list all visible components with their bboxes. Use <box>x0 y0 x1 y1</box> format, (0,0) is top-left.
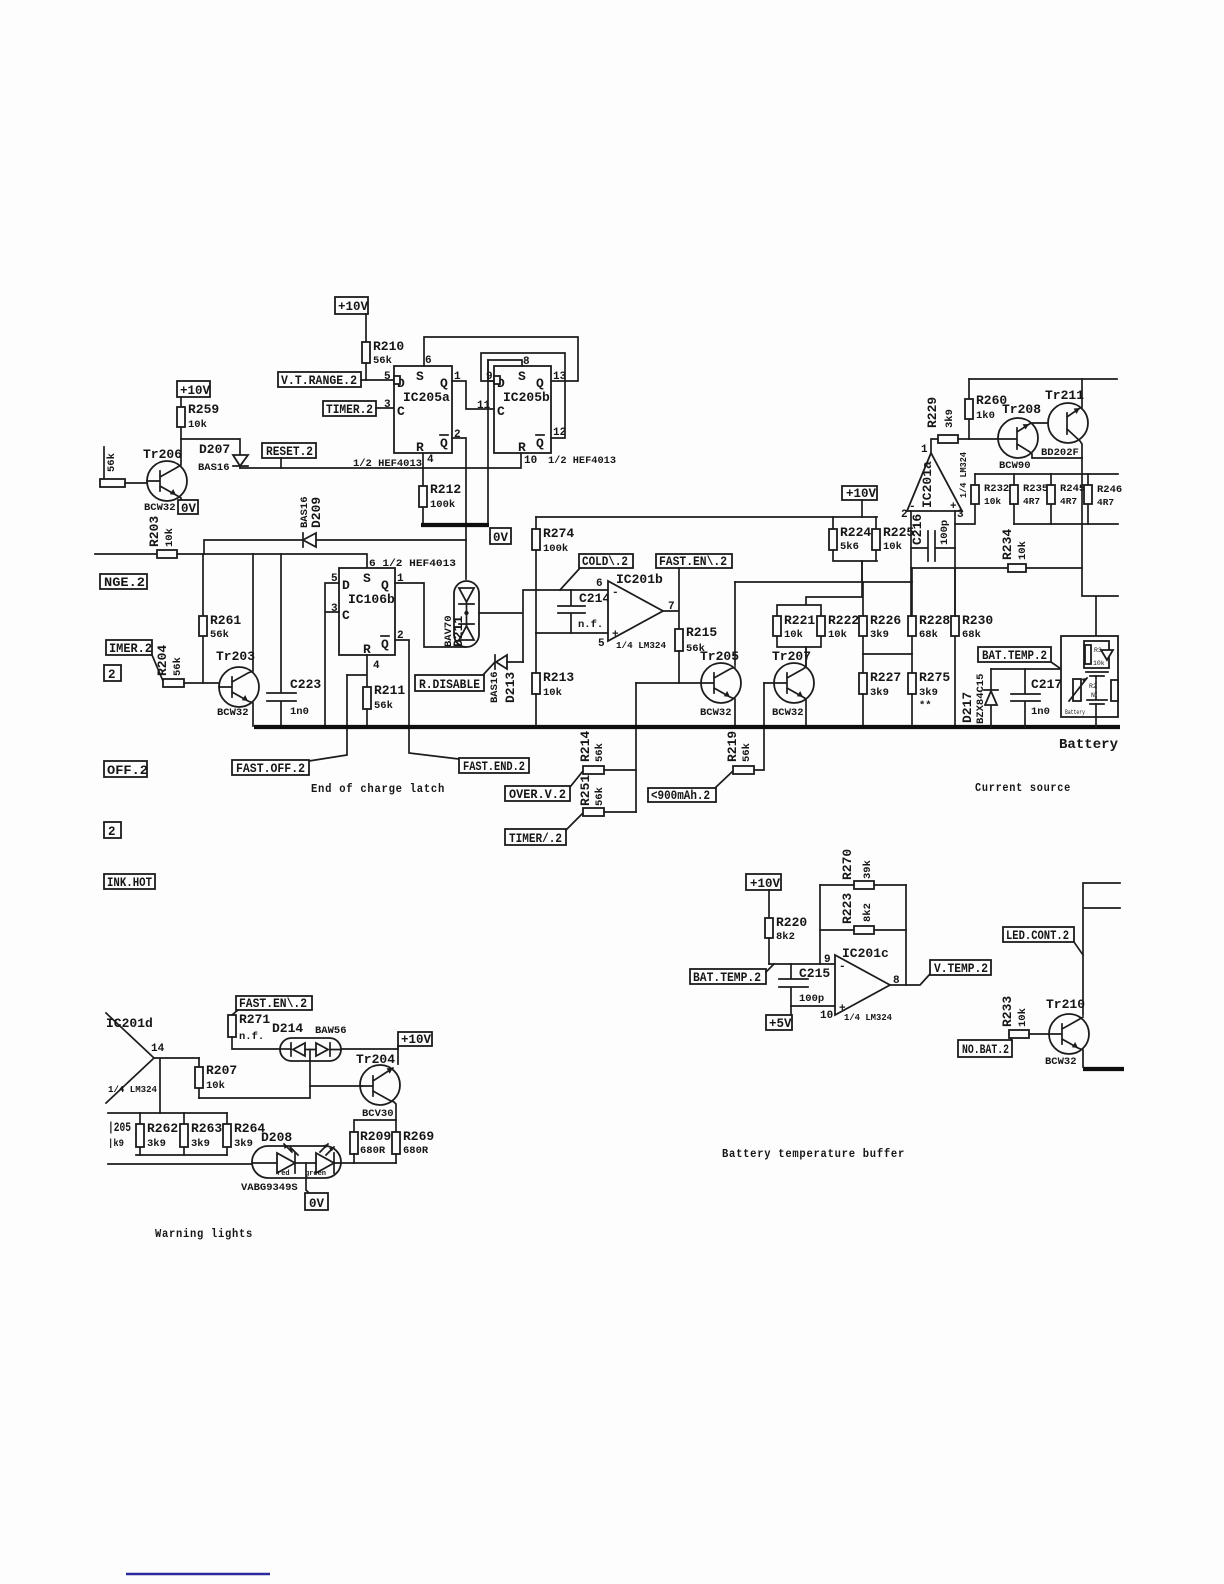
svg-text:6 1/2 HEF4013: 6 1/2 HEF4013 <box>369 558 456 570</box>
svg-text:+10V: +10V <box>180 384 211 398</box>
transistor Tr206 <box>143 439 187 514</box>
resistor R262 <box>136 1113 178 1155</box>
wire IMER.2 to R204 <box>152 655 163 681</box>
svg-text:RESET.2: RESET.2 <box>266 445 313 459</box>
diode D209 BAS16 <box>299 496 324 547</box>
svg-text:R209: R209 <box>360 1129 391 1144</box>
svg-text:BAT.TEMP.2: BAT.TEMP.2 <box>982 649 1047 663</box>
svg-text:C217: C217 <box>1031 677 1062 692</box>
resistor R214 <box>578 731 636 774</box>
svg-text:IMER.2: IMER.2 <box>109 642 152 656</box>
resistor R227 <box>859 670 901 726</box>
svg-text:R220: R220 <box>776 915 807 930</box>
svg-text:0V: 0V <box>181 502 197 516</box>
svg-text:14: 14 <box>151 1043 165 1055</box>
svg-text:+10V: +10V <box>401 1033 432 1047</box>
svg-text:FAST.END.2: FAST.END.2 <box>463 760 525 774</box>
svg-text:1k0: 1k0 <box>976 410 995 422</box>
node +10V (left) <box>177 381 211 398</box>
svg-text:R219: R219 <box>725 731 740 762</box>
svg-text:D213: D213 <box>503 672 518 703</box>
svg-text:39k: 39k <box>862 860 874 879</box>
wire LED control vertical <box>1083 883 1120 1015</box>
svg-text:4R7: 4R7 <box>1023 496 1040 507</box>
svg-text:V.T.RANGE.2: V.T.RANGE.2 <box>281 374 357 388</box>
svg-text:BCW90: BCW90 <box>999 460 1031 472</box>
node .2 (cut label lower) <box>104 822 121 839</box>
wire top rail y517 <box>536 516 877 518</box>
svg-text:FAST.EN\.2: FAST.EN\.2 <box>239 997 307 1011</box>
svg-text:Q: Q <box>440 436 448 451</box>
wire D208 to R209/R269 <box>354 1162 396 1164</box>
svg-text:680R: 680R <box>360 1145 386 1157</box>
svg-text:Current source: Current source <box>975 782 1071 795</box>
node +5V <box>766 1015 792 1031</box>
node 0V (Tr206) <box>178 500 198 516</box>
resistor R204 <box>155 645 219 687</box>
wire R207 to D214 centre <box>199 1060 310 1098</box>
svg-text:4R7: 4R7 <box>1097 497 1114 508</box>
resistor R264 <box>223 1113 265 1155</box>
op-amp IC201c <box>820 946 900 1023</box>
svg-text:10k: 10k <box>206 1080 225 1092</box>
svg-text:3k9: 3k9 <box>147 1138 166 1150</box>
wire emitter split to R209 R269 <box>354 1120 396 1132</box>
wire R234 rail y568 <box>911 567 1082 569</box>
op-amp IC201a <box>901 444 969 521</box>
wire R210 to pin5 <box>365 363 367 380</box>
svg-text:BCW32: BCW32 <box>1045 1056 1077 1068</box>
svg-text:R203: R203 <box>147 516 162 547</box>
svg-text:R222: R222 <box>828 613 859 628</box>
resistor bank rail <box>108 1113 252 1164</box>
svg-text:56k: 56k <box>373 355 392 367</box>
svg-text:C215: C215 <box>799 966 830 981</box>
resistor 56k stub at left edge <box>100 447 147 487</box>
resistor R271 <box>228 1012 280 1049</box>
node OVER.V.2 <box>505 771 583 802</box>
SECTION-TOP <box>95 297 616 590</box>
svg-text:R213: R213 <box>543 670 574 685</box>
svg-text:10k: 10k <box>1093 660 1105 667</box>
svg-text:1: 1 <box>921 444 928 456</box>
feedback verticals <box>820 885 906 985</box>
transistor Tr211 <box>1041 379 1088 459</box>
wire minus input rail <box>769 963 835 965</box>
transistor Tr210 <box>1045 997 1089 1068</box>
svg-text:BCW32: BCW32 <box>144 502 176 514</box>
svg-text:10k: 10k <box>784 629 803 641</box>
svg-text:NO.BAT.2: NO.BAT.2 <box>962 1043 1009 1057</box>
svg-text:D209: D209 <box>309 497 324 528</box>
svg-text:Tr206: Tr206 <box>143 447 182 462</box>
zener D217 BZX84C15 <box>960 669 998 727</box>
footer blue rule <box>126 1573 270 1575</box>
svg-text:+5V: +5V <box>769 1017 792 1031</box>
wire sense top rail y474 <box>975 473 1118 475</box>
svg-text:IC205a: IC205a <box>403 390 450 405</box>
svg-text:Tr210: Tr210 <box>1046 997 1085 1012</box>
resistor R212 <box>419 468 461 524</box>
svg-text:R259: R259 <box>188 402 219 417</box>
svg-text:R235: R235 <box>1023 483 1048 495</box>
svg-text:Warning lights: Warning lights <box>155 1228 253 1241</box>
resistor R203 <box>147 516 177 558</box>
ground bus (LED) <box>1083 1067 1124 1071</box>
svg-text:6: 6 <box>425 355 432 367</box>
dual diode D214 BAW56 <box>272 1021 347 1061</box>
svg-text:+10V: +10V <box>846 487 877 501</box>
node BAT.TEMP.2 (buffer) <box>690 964 774 985</box>
wire Tr207 base to R219 <box>753 683 764 770</box>
node V.T.RANGE.2 <box>278 372 361 388</box>
resistors R221 R222 parallel <box>773 561 862 667</box>
svg-text:Tr208: Tr208 <box>1002 402 1041 417</box>
svg-text:BCV30: BCV30 <box>362 1108 394 1120</box>
resistor R226 <box>859 582 901 673</box>
wire TIMER.2 to IC205a pin 3 <box>376 407 394 409</box>
svg-text:D214: D214 <box>272 1021 303 1036</box>
svg-text:10k: 10k <box>543 687 562 699</box>
svg-text:10k: 10k <box>1017 1008 1029 1027</box>
node LED.CONT.2 <box>1003 927 1083 955</box>
svg-text:3: 3 <box>384 399 391 411</box>
node FAST.EN\.2 <box>656 554 732 569</box>
svg-text:R230: R230 <box>962 613 993 628</box>
svg-text:C214: C214 <box>579 591 610 606</box>
svg-text:OVER.V.2: OVER.V.2 <box>509 788 566 802</box>
svg-text:3k9: 3k9 <box>870 687 889 699</box>
svg-text:10k: 10k <box>828 629 847 641</box>
svg-text:R234: R234 <box>1000 529 1015 560</box>
resistor R211 <box>347 655 405 726</box>
svg-text:IC201c: IC201c <box>842 946 889 961</box>
resistor R229 <box>925 397 958 443</box>
node V.TEMP.2 <box>930 960 991 976</box>
wire main W1 <box>95 554 367 568</box>
capacitor C215 <box>779 964 830 1006</box>
SECTION-MISC <box>126 1573 270 1575</box>
svg-text:IC201d: IC201d <box>106 1016 153 1031</box>
svg-text:R269: R269 <box>403 1129 434 1144</box>
svg-text:5k6: 5k6 <box>840 541 859 553</box>
wire bat.temp rail <box>991 668 1061 670</box>
wire emitter down to battery <box>1082 458 1118 636</box>
svg-text:Q: Q <box>536 376 544 391</box>
svg-text:S: S <box>363 571 371 586</box>
SECTION-BUFFER <box>690 849 1124 1161</box>
SECTION-BOTLEFT <box>106 996 434 1241</box>
svg-text:R221: R221 <box>784 613 815 628</box>
svg-text:1n0: 1n0 <box>290 706 309 718</box>
node BAT.TEMP.2 <box>978 647 1061 669</box>
wire pin3 vertical <box>954 511 956 616</box>
svg-text:R262: R262 <box>147 1121 178 1136</box>
node FAST.END.2 <box>459 758 529 774</box>
resistor R275 <box>908 670 950 726</box>
svg-text:End of charge latch: End of charge latch <box>311 783 445 796</box>
svg-text:5: 5 <box>384 371 391 383</box>
svg-text:56k: 56k <box>594 743 606 762</box>
wire Tr208 emitter to Tr211 emitter <box>1033 457 1082 459</box>
svg-text:BAS16: BAS16 <box>198 462 230 474</box>
svg-text:1n0: 1n0 <box>1031 706 1050 718</box>
svg-text:D208: D208 <box>261 1130 292 1145</box>
svg-text:Battery: Battery <box>1059 738 1118 753</box>
svg-text:5: 5 <box>598 638 605 650</box>
wire feedback top loop IC205b Q to IC205a S <box>424 337 578 381</box>
svg-text:3k9: 3k9 <box>191 1138 210 1150</box>
svg-text:R233: R233 <box>1000 996 1015 1027</box>
svg-text:TIMER.2: TIMER.2 <box>326 403 373 417</box>
svg-text:68k: 68k <box>919 629 938 641</box>
svg-text:red: red <box>277 1170 290 1178</box>
svg-text:|205: |205 <box>108 1120 131 1135</box>
ground bus (upper) <box>421 523 489 527</box>
wire top rail y379 <box>969 378 1117 380</box>
wire sense vertical x636 <box>635 683 637 812</box>
resistor R269 <box>392 1129 434 1163</box>
node +10V (buffer) <box>746 874 781 918</box>
svg-text:IC205b: IC205b <box>503 390 550 405</box>
svg-text:n.f.: n.f. <box>239 1031 264 1043</box>
svg-text:R274: R274 <box>543 526 574 541</box>
resistor R209 <box>350 1129 391 1163</box>
wire IC106b D+C tie to ground <box>325 583 339 726</box>
resistor R234 <box>1000 529 1029 572</box>
wire IC106b Q2 to FAST.END.2 <box>395 640 459 759</box>
svg-text:0V: 0V <box>493 531 509 545</box>
wire collector rail y582 <box>735 581 912 583</box>
transistor Tr205 <box>700 582 741 726</box>
svg-text:1/2 HEF4013: 1/2 HEF4013 <box>548 455 616 467</box>
capacitor C217 <box>1011 669 1062 727</box>
svg-text:56k: 56k <box>106 453 118 472</box>
svg-text:0V: 0V <box>309 1197 325 1211</box>
wire R259 to D207 <box>181 439 240 455</box>
svg-text:FAST.OFF.2: FAST.OFF.2 <box>236 762 305 776</box>
svg-text:R215: R215 <box>686 625 717 640</box>
svg-text:green: green <box>305 1170 326 1178</box>
svg-text:C: C <box>397 404 405 419</box>
svg-text:+10V: +10V <box>750 877 781 891</box>
node 0V (upper) <box>490 528 511 545</box>
wire output junction <box>663 568 679 629</box>
svg-text:10k: 10k <box>188 419 207 431</box>
flip-flop IC106b <box>339 568 395 657</box>
node TIMER.2 <box>323 401 376 417</box>
svg-text:8k2: 8k2 <box>776 931 795 943</box>
svg-text:BAT.TEMP.2: BAT.TEMP.2 <box>693 971 761 985</box>
diode D213 BAS16 <box>483 655 523 703</box>
svg-text:56k: 56k <box>594 787 606 806</box>
svg-text:R212: R212 <box>430 482 461 497</box>
svg-text:BAS16: BAS16 <box>489 671 501 703</box>
svg-text:3k9: 3k9 <box>234 1138 253 1150</box>
resistor R245 <box>1047 474 1085 524</box>
wire IC106b Q1 to D211 bottom <box>395 583 466 647</box>
svg-text:8k2: 8k2 <box>862 903 874 922</box>
svg-text:IC106b: IC106b <box>348 592 395 607</box>
svg-text:BAW56: BAW56 <box>315 1025 347 1037</box>
node +10V (top) <box>335 297 369 314</box>
svg-text:R207: R207 <box>206 1063 237 1078</box>
svg-text:Battery: Battery <box>1065 709 1085 716</box>
feedback resistor R270 <box>820 849 906 889</box>
svg-text:Q: Q <box>381 637 389 652</box>
svg-text:10: 10 <box>524 455 537 467</box>
svg-text:BCW32: BCW32 <box>772 707 804 719</box>
svg-text:D211: D211 <box>451 616 466 647</box>
svg-text:-: - <box>839 961 846 973</box>
node FAST.OFF.2 <box>232 760 309 776</box>
svg-text:**: ** <box>919 700 932 712</box>
svg-text:R226: R226 <box>870 613 901 628</box>
wire IC205a Q1 to IC205b C11 <box>452 381 494 409</box>
svg-text:Q: Q <box>381 578 389 593</box>
svg-text:+: + <box>950 501 957 513</box>
svg-text:R211: R211 <box>374 683 405 698</box>
wire +10V to R210 <box>365 314 367 342</box>
transistor Tr207 <box>764 647 814 726</box>
svg-text:C: C <box>497 404 505 419</box>
wire output <box>890 974 930 985</box>
svg-text:3: 3 <box>957 509 964 521</box>
svg-text:3k9: 3k9 <box>919 687 938 699</box>
svg-text:R224: R224 <box>840 525 871 540</box>
svg-text:R251: R251 <box>578 775 593 806</box>
svg-text:2: 2 <box>108 825 116 839</box>
svg-text:BCW32: BCW32 <box>700 707 732 719</box>
resistor R220 <box>765 915 807 964</box>
svg-text:R245: R245 <box>1060 483 1085 495</box>
node <900mAh.2 <box>648 771 733 803</box>
resistor R274 <box>532 517 574 633</box>
svg-text:n.f.: n.f. <box>578 619 603 631</box>
svg-text:-: - <box>612 587 619 599</box>
svg-text:R263: R263 <box>191 1121 222 1136</box>
diode D207 BAS16 <box>198 442 248 474</box>
svg-text:100p: 100p <box>799 993 824 1005</box>
svg-text:10k: 10k <box>984 496 1001 507</box>
svg-text:Tr204: Tr204 <box>356 1052 395 1067</box>
svg-text:|k9: |k9 <box>108 1138 124 1150</box>
svg-text:BD202F: BD202F <box>1041 447 1079 459</box>
svg-text:R232: R232 <box>984 483 1009 495</box>
resistors R224 R225 parallel <box>829 517 914 582</box>
wire pin8 S tie <box>488 360 522 381</box>
svg-text:BCW32: BCW32 <box>217 707 249 719</box>
resistor R207 <box>195 1058 237 1098</box>
svg-text:Q: Q <box>440 376 448 391</box>
svg-text:R275: R275 <box>919 670 950 685</box>
svg-text:56k: 56k <box>374 700 393 712</box>
svg-text:10: 10 <box>820 1010 833 1022</box>
capacitor C216 <box>910 514 955 561</box>
wire R226/R275 link <box>863 654 912 673</box>
svg-text:LED.CONT.2: LED.CONT.2 <box>1006 929 1069 943</box>
svg-text:2: 2 <box>454 429 461 441</box>
wire IC205b Q12 loop to pin9 <box>481 353 565 438</box>
capacitor C223 <box>267 554 321 726</box>
ground bus (main) <box>254 725 1120 729</box>
svg-text:1/4 LM324: 1/4 LM324 <box>844 1012 892 1023</box>
svg-text:1/4 LM324: 1/4 LM324 <box>616 640 666 651</box>
resistor R263 <box>180 1113 222 1155</box>
resistor R230 <box>951 568 993 726</box>
wire reset net pin4 <box>240 453 521 468</box>
resistor R233 <box>1000 996 1049 1038</box>
svg-text:R204: R204 <box>155 645 170 676</box>
svg-text:56k: 56k <box>210 629 229 641</box>
svg-text:OFF.2: OFF.2 <box>107 764 148 778</box>
svg-text:6: 6 <box>596 578 603 590</box>
SECTION-MID <box>104 517 1120 890</box>
svg-text:COLD\.2: COLD\.2 <box>582 555 628 569</box>
wire sense bottom rail y524 <box>1014 523 1118 525</box>
svg-text:S: S <box>416 369 424 384</box>
svg-text:D207: D207 <box>199 442 230 457</box>
resistor R235 <box>1010 474 1048 524</box>
svg-text:56k: 56k <box>172 657 184 676</box>
battery equivalent box <box>1061 636 1118 717</box>
wire pin9/D ground vertical <box>487 360 489 524</box>
svg-text:10k: 10k <box>164 528 176 547</box>
transistor Tr204 <box>356 1046 400 1120</box>
transistor Tr203 <box>216 554 259 726</box>
node OFF.2 (cut label) <box>104 761 148 778</box>
wire R pin to FAST.OFF.2 <box>309 675 347 761</box>
svg-text:56k: 56k <box>741 743 753 762</box>
svg-text:R227: R227 <box>870 670 901 685</box>
op-amp IC201d (cut at page edge) <box>106 1013 165 1103</box>
svg-text:N: N <box>1091 692 1095 699</box>
svg-text:100k: 100k <box>543 543 568 555</box>
resistor R228 <box>908 568 950 654</box>
wire IC201d output <box>154 1058 199 1113</box>
svg-text:D: D <box>342 578 350 593</box>
svg-text:8: 8 <box>523 356 530 368</box>
svg-text:C223: C223 <box>290 677 321 692</box>
svg-text:C: C <box>342 608 350 623</box>
svg-text:4: 4 <box>427 454 434 466</box>
node FAST.EN\.2 (warning) <box>232 996 312 1015</box>
svg-text:Tr205: Tr205 <box>700 649 739 664</box>
svg-text:C216: C216 <box>910 514 925 545</box>
svg-text:R.DISABLE: R.DISABLE <box>419 678 480 692</box>
capacitor C214 <box>558 590 610 633</box>
node NO.BAT.2 <box>958 1034 1012 1057</box>
svg-text:68k: 68k <box>962 629 981 641</box>
svg-text:<900mAh.2: <900mAh.2 <box>651 789 710 803</box>
svg-text:S: S <box>518 369 526 384</box>
svg-text:Tr203: Tr203 <box>216 649 255 664</box>
svg-text:1/4 LM324: 1/4 LM324 <box>958 452 969 498</box>
svg-text:R246: R246 <box>1097 484 1122 496</box>
svg-text:-: - <box>909 501 916 513</box>
svg-text:D217: D217 <box>960 692 975 723</box>
svg-text:R271: R271 <box>239 1012 270 1027</box>
svg-text:R210: R210 <box>373 339 404 354</box>
op-amp IC201b <box>596 572 675 651</box>
svg-text:BZX84C15: BZX84C15 <box>975 674 987 724</box>
svg-text:4R7: 4R7 <box>1060 496 1077 507</box>
node R.DISABLE <box>415 675 484 692</box>
wire D214 to +10V and Tr204 collector <box>341 1046 398 1049</box>
feedback resistor R223 <box>820 893 906 934</box>
svg-text:2: 2 <box>901 509 908 521</box>
resistor R205 (label cut) <box>108 1120 131 1150</box>
